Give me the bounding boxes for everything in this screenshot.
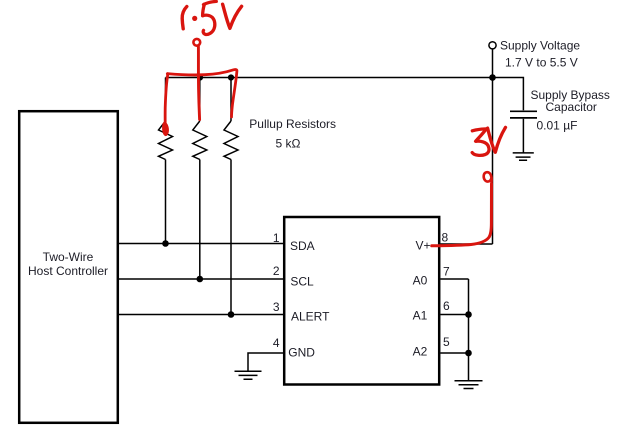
svg-text:6: 6	[443, 299, 450, 313]
svg-text:Capacitor: Capacitor	[546, 100, 597, 114]
svg-text:8: 8	[442, 231, 449, 245]
svg-text:A0: A0	[413, 273, 428, 287]
svg-text:SCL: SCL	[290, 274, 314, 288]
svg-text:Two-Wire: Two-Wire	[43, 250, 94, 264]
svg-text:GND: GND	[288, 345, 315, 359]
svg-text:5: 5	[443, 335, 450, 349]
svg-text:4: 4	[273, 336, 280, 350]
svg-text:Supply Voltage: Supply Voltage	[500, 39, 580, 53]
svg-text:ALERT: ALERT	[291, 310, 330, 324]
svg-text:1: 1	[273, 231, 280, 245]
svg-text:V+: V+	[415, 238, 430, 252]
svg-text:0.01 µF: 0.01 µF	[537, 119, 578, 133]
svg-text:Pullup Resistors: Pullup Resistors	[249, 117, 336, 131]
svg-text:7: 7	[443, 265, 450, 279]
svg-text:5 kΩ: 5 kΩ	[276, 136, 301, 150]
svg-text:SDA: SDA	[290, 239, 315, 253]
svg-text:Host Controller: Host Controller	[28, 264, 108, 278]
svg-text:2: 2	[273, 264, 280, 278]
svg-text:A2: A2	[413, 345, 428, 359]
svg-text:1.7 V to 5.5 V: 1.7 V to 5.5 V	[505, 55, 578, 69]
svg-text:A1: A1	[413, 309, 428, 323]
svg-text:3: 3	[273, 300, 280, 314]
